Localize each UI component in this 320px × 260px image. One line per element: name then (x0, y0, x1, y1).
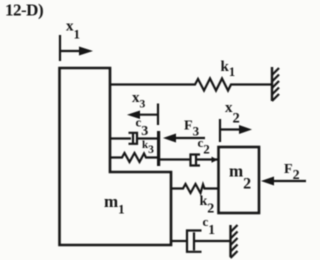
svg-text:x3: x3 (132, 90, 146, 111)
damper c3 (109, 137, 131, 139)
svg-text:m2: m2 (229, 162, 251, 193)
svg-text:c1: c1 (203, 214, 216, 237)
coordinate arrow x1 (60, 35, 80, 61)
force arrow F2 (273, 180, 306, 182)
wall (right, for k1) (271, 67, 273, 101)
svg-text:12-D): 12-D) (5, 1, 43, 20)
mass m1 (L-shaped block) (60, 68, 172, 245)
damper c2 (160, 158, 191, 160)
svg-text:F2: F2 (284, 162, 300, 183)
svg-text:m1: m1 (104, 192, 125, 217)
mass m2 (block) (219, 147, 260, 213)
plate (node x3, between c3/k3 and c2) (157, 131, 160, 166)
svg-text:x2: x2 (225, 100, 240, 127)
coordinate arrow x2 (220, 119, 240, 142)
wall (bottom right, for c1) (229, 225, 231, 257)
force arrow F3 (174, 137, 205, 139)
svg-text:k1: k1 (221, 59, 236, 79)
spring k2 (171, 184, 219, 193)
spring k1 (110, 79, 272, 91)
damper c1 (171, 240, 187, 242)
coordinate arrow x3 (139, 104, 158, 126)
svg-text:x1: x1 (66, 19, 80, 42)
spring k3 (109, 153, 157, 162)
